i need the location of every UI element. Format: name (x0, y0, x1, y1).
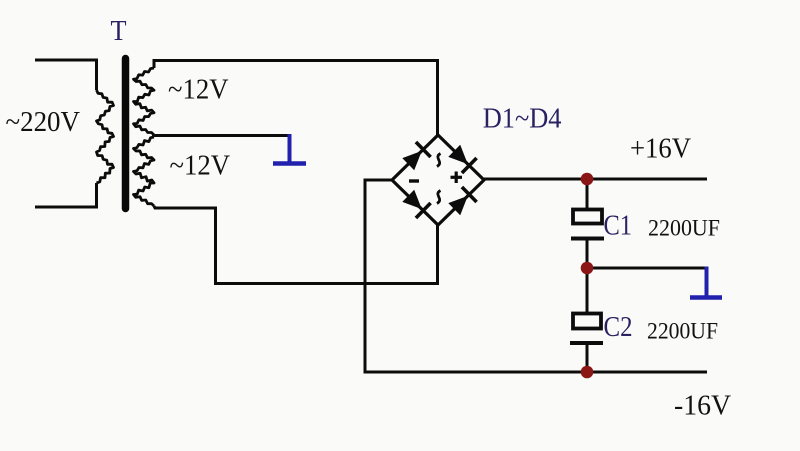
diode D1 (left to top) (402, 142, 430, 170)
ground symbol (mid rail) (690, 267, 722, 298)
node -16V junction (581, 366, 594, 379)
svg-text:~12V: ~12V (168, 74, 229, 106)
wire center tap (152, 134, 290, 137)
transformer secondary top winding (134, 68, 155, 135)
bridge plus sign (451, 172, 463, 184)
svg-text:~220V: ~220V (6, 106, 81, 138)
bridge rectifier diamond (392, 135, 484, 225)
wire -16V rail (364, 371, 708, 374)
diode D3 (left to bottom) (402, 190, 430, 218)
svg-text:~12V: ~12V (170, 150, 231, 182)
svg-text:+16V: +16V (630, 134, 691, 165)
svg-text:2200UF: 2200UF (648, 216, 720, 241)
wire mid node to ground (587, 267, 706, 270)
transformer secondary bottom winding (134, 137, 155, 206)
svg-text:-16V: -16V (674, 391, 731, 422)
wire primary bottom (35, 183, 97, 207)
wire +16V node to C1 (586, 179, 589, 209)
wire secondary bottom to bridge bottom (154, 206, 438, 284)
bridge AC tilde bottom (437, 191, 441, 204)
capacitor C2 (570, 314, 603, 344)
ground symbol (center tap) (273, 134, 306, 164)
bridge AC tilde top (437, 154, 441, 167)
wire C1 to mid node (586, 240, 589, 268)
svg-text:D1~D4: D1~D4 (483, 103, 562, 135)
svg-text:T: T (111, 15, 127, 47)
capacitor C1 (571, 210, 604, 239)
node +16V junction (581, 173, 594, 186)
wire bridge left to -16V rail (365, 180, 392, 372)
diode D2 (top to right) (448, 145, 476, 173)
wire primary top (35, 60, 97, 90)
wire mid node to C2 (586, 268, 589, 313)
wire +16V rail (484, 178, 707, 181)
wire secondary top to bridge top (154, 61, 438, 137)
transformer T core (122, 59, 130, 209)
svg-text:C2: C2 (604, 311, 633, 343)
diode D4 (bottom to right) (448, 187, 476, 215)
wire C2 to -16V node (586, 344, 589, 372)
transformer T primary winding (97, 90, 114, 183)
bridge minus sign (409, 179, 419, 182)
svg-text:C1: C1 (604, 210, 633, 242)
node mid junction (581, 262, 594, 275)
svg-text:2200UF: 2200UF (647, 319, 718, 344)
